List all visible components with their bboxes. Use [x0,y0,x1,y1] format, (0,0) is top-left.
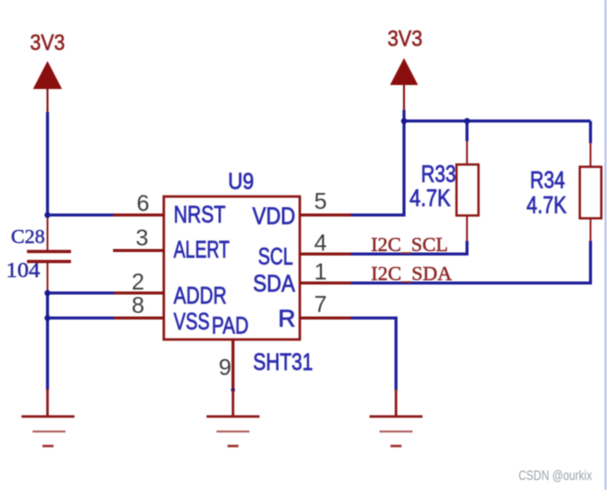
wire NRST net [48,214,115,217]
wire R33 top stub [466,141,468,165]
resistor R34 body [580,167,602,219]
svg-text:3V3: 3V3 [388,26,423,51]
svg-text:9: 9 [219,354,232,380]
svg-text:ALERT: ALERT [174,237,230,264]
wire R net horizontal [351,317,398,320]
svg-text:ADDR: ADDR [174,283,227,310]
svg-text:3: 3 [136,225,149,251]
node junction rail left [401,118,407,124]
svg-text:SDA: SDA [253,271,295,298]
wire R net vertical [395,317,398,391]
ground right stub [395,389,398,416]
svg-text:3V3: 3V3 [30,30,65,55]
capacitor C28 bottom plate [27,260,71,263]
wire VDD vertical [403,110,406,215]
svg-text:VSS: VSS [174,309,210,336]
wire R34 top blue [589,121,592,143]
pin 8 VSS stub [114,317,164,320]
svg-text:NRST: NRST [174,202,226,229]
ground middle stub [232,390,235,416]
power symbol 3V3 right stub [403,85,405,111]
wire I2C_SDA net [351,282,592,285]
svg-text:2: 2 [132,269,145,295]
svg-text:4: 4 [314,230,327,256]
ground middle symbol [207,417,260,447]
svg-text:6: 6 [137,190,150,216]
svg-text:1: 1 [314,259,327,285]
svg-text:4.7K: 4.7K [527,192,567,219]
wire capacitor bottom stub [47,263,49,293]
resistor R33 body [457,165,479,216]
svg-text:5: 5 [314,188,327,214]
pin 6 NRST stub [113,214,164,217]
ground left symbol [22,417,75,447]
wire ADDR net [48,292,116,295]
svg-text:VDD: VDD [252,203,295,230]
svg-text:U9: U9 [228,168,254,194]
wire R33 top blue [466,121,469,141]
wire R33 bottom blue [466,241,469,254]
node junction pin6 row [45,212,51,218]
wire 3V3 left vertical [46,112,49,215]
power symbol 3V3 left stub [47,89,49,114]
pin 4 SCL stub [300,253,351,256]
svg-text:R34: R34 [530,167,565,194]
ground left stub [46,389,49,416]
pin 2 ADDR stub [114,292,164,295]
wire R33 bottom stub [466,216,468,242]
svg-text:I2C_SDA: I2C_SDA [371,263,453,285]
svg-text:SHT31: SHT31 [253,349,313,376]
node junction pin8 row [45,315,51,321]
wire R34 top stub [590,143,592,167]
svg-text:PAD: PAD [212,313,249,340]
svg-text:7: 7 [314,291,327,317]
node junction rail R33 [464,118,470,124]
wire R34 bottom stub [590,218,592,241]
pin 9 PAD stub [232,340,235,391]
pin 1 SDA stub [300,282,351,285]
pin 9 endpoint dot [231,388,235,392]
pin 7 R stub [300,317,351,320]
wire left vertical to ground [46,293,49,390]
svg-text:R: R [278,306,295,333]
svg-text:I2C_SCL: I2C_SCL [371,234,448,256]
capacitor C28 top plate [27,250,71,253]
pin 5 VDD stub [300,214,351,217]
IC U9 body (SHT31) [164,197,300,340]
wire capacitor top stub [47,215,49,250]
svg-text:C28: C28 [11,226,45,248]
power symbol 3V3 right triangle [390,58,418,85]
wire R34 bottom blue [589,241,592,285]
svg-text:CSDN @ourkix: CSDN @ourkix [519,467,593,483]
wire VSS net [48,317,116,320]
node junction pin2 row [45,290,51,296]
svg-text:8: 8 [132,292,145,318]
ground right symbol [370,417,423,447]
power symbol 3V3 left triangle [33,61,62,89]
svg-text:SCL: SCL [258,244,293,271]
pin 3 ALERT stub [113,249,164,252]
svg-text:R33: R33 [421,161,456,188]
svg-text:104: 104 [6,258,41,282]
wire 3V3 rail [404,120,591,123]
page right edge line [605,0,607,490]
wire VDD horizontal [351,214,406,217]
wire I2C_SCL net [351,253,469,256]
svg-text:4.7K: 4.7K [410,185,451,212]
